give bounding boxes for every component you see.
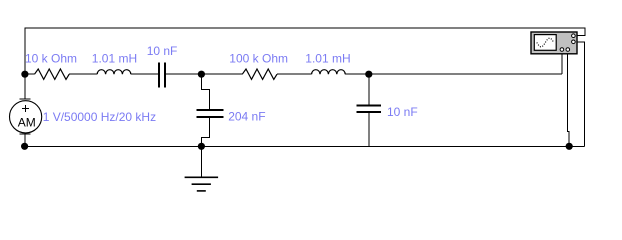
- node E junction dot (source bottom): [21, 143, 28, 150]
- svg-text:1.01 mH: 1.01 mH: [305, 52, 350, 66]
- node A junction dot: [21, 71, 28, 78]
- svg-text:10 k Ohm: 10 k Ohm: [25, 52, 77, 66]
- wire scope A channel riser: [561, 50, 563, 74]
- wire C3 to bottom rail: [368, 113, 370, 146]
- wire rail node A to R1: [25, 73, 35, 75]
- wire left source top segment: [24, 74, 26, 99]
- wire top rail: [25, 28, 585, 74]
- wire right riser to scope B terminal: [575, 42, 585, 147]
- ground stem: [200, 146, 202, 177]
- AM source V1: [10, 99, 42, 134]
- capacitor C3 10 nF plates: [357, 104, 382, 106]
- wire R1 to L1: [69, 73, 97, 75]
- svg-text:10 nF: 10 nF: [387, 105, 418, 119]
- wire bottom rail: [25, 145, 585, 147]
- wire scope ground drop (jog): [568, 50, 570, 146]
- oscilloscope sine trace: [537, 38, 554, 47]
- node C junction dot: [365, 71, 372, 78]
- wire L1 to C1: [131, 73, 158, 75]
- oscilloscope terminal bottom-G: [566, 48, 570, 52]
- resistor R1 10 k Ohm: [35, 69, 70, 79]
- svg-text:AM: AM: [18, 116, 36, 130]
- node G junction dot (scope ground): [566, 143, 573, 150]
- oscilloscope terminal bottom-A: [560, 48, 564, 52]
- node D junction dot (ground): [198, 143, 205, 150]
- oscilloscope body: [531, 32, 577, 54]
- wire C2 to bottom rail (jog): [201, 118, 209, 147]
- svg-text:1.01 mH: 1.01 mH: [92, 52, 137, 66]
- resistor R2 100 k Ohm: [242, 69, 277, 79]
- wire C1 to R2: [166, 73, 242, 75]
- svg-text:1 V/50000 Hz/20 kHz: 1 V/50000 Hz/20 kHz: [43, 110, 156, 124]
- oscilloscope screen: [534, 35, 556, 51]
- svg-text:10 nF: 10 nF: [147, 44, 178, 58]
- capacitor C2 204 nF plates: [197, 109, 224, 111]
- svg-text:204 nF: 204 nF: [228, 110, 265, 124]
- wire left source bottom segment: [24, 134, 26, 147]
- oscilloscope terminal right-bottom: [572, 40, 576, 44]
- ground bars: [185, 177, 219, 191]
- svg-text:100 k Ohm: 100 k Ohm: [229, 52, 288, 66]
- oscilloscope terminal right-top: [572, 34, 576, 38]
- node B junction dot: [198, 71, 205, 78]
- inductor L1 1.01 mH: [97, 70, 131, 74]
- inductor L2 1.01 mH: [312, 70, 346, 75]
- wire R2 to L2: [277, 73, 312, 75]
- capacitor C1 10 nF plates: [158, 63, 160, 88]
- wire node C to C3: [368, 74, 370, 104]
- wire L2 to scope channel riser: [345, 73, 562, 75]
- wire node B to C2 (jog): [201, 74, 209, 109]
